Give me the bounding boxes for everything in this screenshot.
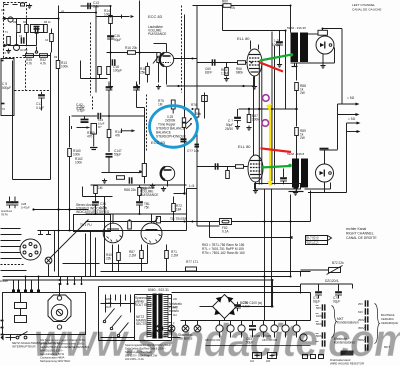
- svg-text:184: 184: [176, 208, 182, 212]
- svg-text:1.5M: 1.5M: [221, 72, 228, 76]
- svg-text:TA: TA: [2, 107, 5, 111]
- svg-text:3.3n: 3.3n: [93, 5, 99, 9]
- svg-text:R4: R4: [23, 21, 27, 24]
- svg-text:200k: 200k: [252, 118, 259, 122]
- svg-text:L≈5: L≈5: [189, 184, 195, 188]
- svg-text:2.2M: 2.2M: [129, 254, 136, 258]
- svg-text:4.7k: 4.7k: [26, 62, 32, 66]
- svg-text:B72 22k: B72 22k: [332, 261, 344, 265]
- svg-text:ECC 83: ECC 83: [151, 140, 166, 145]
- svg-text:ELL 80: ELL 80: [237, 36, 250, 41]
- svg-text:VOLT SELECT: VOLT SELECT: [135, 303, 156, 307]
- svg-text:R76: R76: [191, 103, 197, 107]
- svg-text:50V: 50V: [316, 306, 321, 310]
- svg-text:5060 - 922.31: 5060 - 922.31: [148, 288, 169, 292]
- svg-text:680k: 680k: [236, 71, 243, 75]
- svg-text:100k: 100k: [75, 161, 82, 165]
- svg-text:≈ 5Ω: ≈ 5Ω: [348, 117, 356, 121]
- svg-text:INDICATEUR STEREO: INDICATEUR STEREO: [76, 210, 110, 214]
- svg-text:92μF: 92μF: [333, 300, 340, 304]
- svg-text:C4: C4: [45, 39, 49, 42]
- svg-text:TB PU: TB PU: [1, 214, 8, 217]
- svg-text:1M: 1M: [158, 103, 163, 107]
- svg-text:u1: u1: [61, 10, 64, 13]
- svg-text:INTERRUPTEUR: INTERRUPTEUR: [12, 345, 36, 349]
- svg-text:AC151: AC151: [20, 49, 28, 52]
- svg-text:4.7k: 4.7k: [40, 62, 46, 66]
- svg-text:C3: C3: [19, 35, 23, 38]
- svg-text:R6 1k: R6 1k: [44, 21, 51, 24]
- svg-text:RIGHT CHANNEL: RIGHT CHANNEL: [346, 232, 374, 236]
- svg-text:ELL 80: ELL 80: [238, 144, 251, 149]
- svg-text:100k: 100k: [104, 13, 111, 17]
- svg-text:C?? 10n: C?? 10n: [187, 149, 199, 153]
- svg-text:25V: 25V: [358, 302, 363, 306]
- svg-text:0.1μF: 0.1μF: [76, 107, 84, 111]
- svg-text:50μF: 50μF: [114, 153, 121, 157]
- svg-text:25k: 25k: [140, 71, 146, 75]
- svg-text:100k: 100k: [61, 65, 68, 69]
- svg-text:ECC 83: ECC 83: [148, 14, 163, 19]
- svg-text:rechter Kanal: rechter Kanal: [346, 227, 366, 231]
- svg-text:T1: T1: [5, 31, 9, 34]
- svg-text:0.1A: 0.1A: [222, 230, 229, 234]
- svg-text:2W: 2W: [300, 136, 305, 140]
- svg-text:500μF: 500μF: [2, 86, 11, 90]
- svg-text:127V: 127V: [106, 302, 112, 305]
- svg-text:220: 220: [173, 298, 178, 301]
- svg-text:50k: 50k: [196, 112, 202, 116]
- svg-text:R88 22k: R88 22k: [124, 188, 136, 192]
- svg-text:100μF: 100μF: [272, 43, 281, 47]
- svg-text:92μF: 92μF: [313, 300, 320, 304]
- svg-text:100μF: 100μF: [113, 69, 122, 73]
- svg-text:17k: 17k: [230, 6, 236, 10]
- svg-text:R7N = 7B01-162 Rann Br 160: R7N = 7B01-162 Rann Br 160: [202, 251, 245, 255]
- svg-text:25/30: 25/30: [225, 127, 233, 131]
- svg-text:R9: R9: [54, 56, 58, 59]
- svg-text:0.47μF: 0.47μF: [21, 206, 30, 210]
- svg-text:82nF: 82nF: [205, 71, 212, 75]
- svg-text:LEFT CHANNEL: LEFT CHANNEL: [352, 3, 375, 7]
- svg-text:≈ 5Ω: ≈ 5Ω: [347, 96, 355, 100]
- svg-text:R60: R60: [222, 0, 228, 4]
- svg-text:100k: 100k: [73, 153, 80, 157]
- svg-text:R2: R2: [13, 21, 17, 24]
- svg-text:PUISSANCE: PUISSANCE: [148, 32, 166, 36]
- svg-text:0.1μF: 0.1μF: [36, 106, 44, 110]
- svg-text:R16: R16: [125, 46, 131, 50]
- svg-text:TA: TB EBF: TA: TB EBF: [170, 217, 187, 221]
- svg-text:90μF: 90μF: [114, 38, 121, 42]
- svg-text:CANAL DE GAUCHE: CANAL DE GAUCHE: [352, 8, 381, 12]
- svg-text:47k: 47k: [115, 134, 121, 138]
- svg-text:Zusatz: Zusatz: [0, 279, 8, 283]
- svg-text:4.7nF: 4.7nF: [242, 305, 250, 309]
- svg-text:T2: T2: [3, 52, 7, 55]
- svg-text:75n: 75n: [144, 206, 150, 210]
- svg-text:2.2M: 2.2M: [171, 254, 178, 258]
- svg-text:22k: 22k: [106, 257, 112, 261]
- svg-text:1M: 1M: [98, 186, 103, 190]
- svg-text:DZ/120/4-: DZ/120/4-: [325, 279, 339, 283]
- svg-text:77B? 81a2: 77B? 81a2: [305, 241, 319, 245]
- svg-text:2W: 2W: [300, 91, 305, 95]
- svg-text:W1: W1: [1, 9, 5, 12]
- svg-text:PUISSANCE: PUISSANCE: [140, 193, 158, 197]
- svg-text:20k: 20k: [132, 46, 138, 50]
- svg-text:110V: 110V: [106, 306, 112, 309]
- svg-text:R77 171: R77 171: [186, 260, 198, 264]
- svg-text:TA 1 PU: TA 1 PU: [80, 223, 92, 227]
- svg-text:59A8 - 336.35: 59A8 - 336.35: [287, 26, 306, 30]
- svg-text:470: 470: [87, 135, 93, 139]
- svg-text:59A8 - 336.8: 59A8 - 336.8: [287, 152, 305, 156]
- svg-text:CANAL DE DROITE: CANAL DE DROITE: [346, 236, 377, 240]
- svg-text:STEREOPHONIQUE: STEREOPHONIQUE: [156, 135, 186, 139]
- svg-text:R?: R?: [98, 125, 102, 129]
- svg-text:220V: 220V: [106, 298, 112, 301]
